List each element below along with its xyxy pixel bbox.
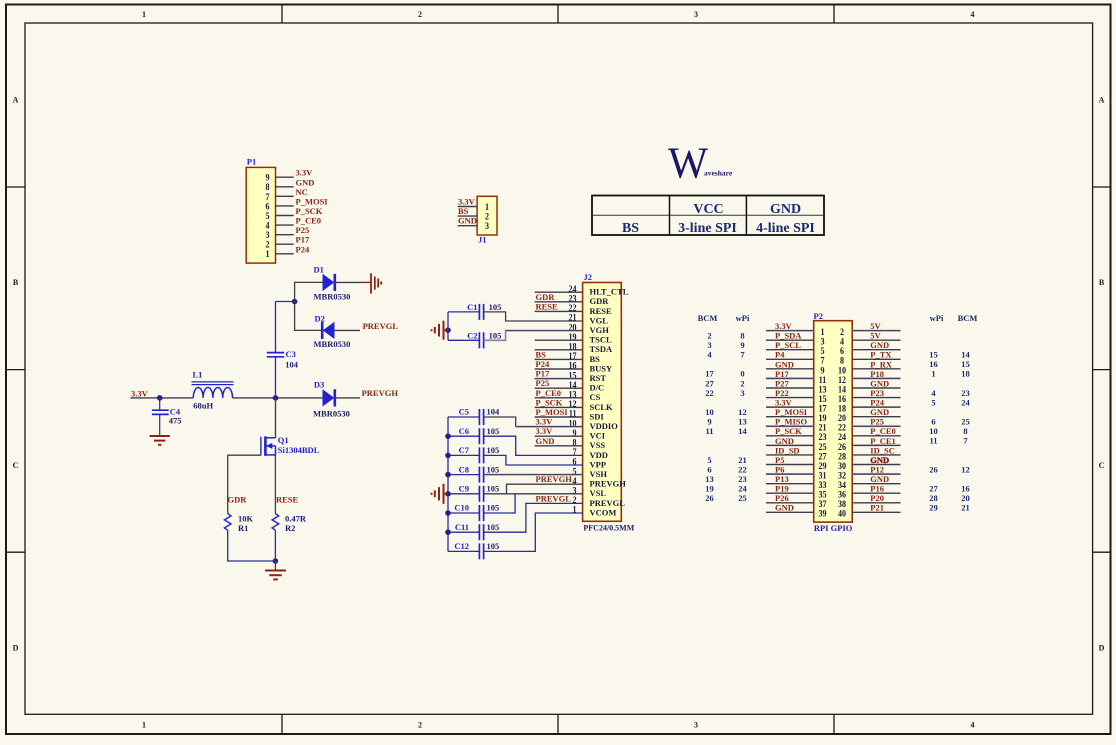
svg-text:12: 12 bbox=[738, 407, 747, 417]
svg-text:24: 24 bbox=[738, 484, 747, 494]
svg-text:3.3V: 3.3V bbox=[296, 168, 314, 178]
svg-text:P2: P2 bbox=[814, 311, 823, 321]
wire 3.3V rail bbox=[131, 397, 194, 399]
P2 row 7 right wire (pin 14) bbox=[852, 387, 900, 389]
svg-text:GND: GND bbox=[775, 359, 794, 369]
svg-text:ID_SD: ID_SD bbox=[775, 445, 800, 455]
svg-text:105: 105 bbox=[487, 464, 500, 474]
P1 pin 1 wire bbox=[276, 253, 294, 255]
svg-text:C2: C2 bbox=[467, 330, 477, 340]
svg-text:1: 1 bbox=[931, 369, 935, 379]
svg-text:MBR0530: MBR0530 bbox=[313, 409, 350, 419]
svg-text:W: W bbox=[668, 139, 708, 188]
wire drain vertical bbox=[275, 398, 277, 438]
P1 pin 3 wire bbox=[276, 234, 294, 236]
svg-text:39: 39 bbox=[818, 508, 827, 519]
svg-text:P_SDA: P_SDA bbox=[775, 331, 802, 341]
P2 row 19 left wire (pin 37) bbox=[766, 502, 814, 504]
svg-text:C1: C1 bbox=[467, 302, 477, 312]
node junction bus C7 bbox=[445, 453, 451, 459]
svg-text:P25: P25 bbox=[536, 378, 550, 388]
svg-text:BS: BS bbox=[536, 349, 547, 359]
svg-text:104: 104 bbox=[285, 359, 299, 369]
node junction bus C10 bbox=[445, 510, 451, 516]
svg-text:6: 6 bbox=[707, 464, 711, 474]
svg-text:aveshare: aveshare bbox=[704, 169, 733, 178]
svg-text:27: 27 bbox=[705, 378, 714, 388]
wire C7 to J2 pin 6 bbox=[484, 455, 583, 465]
capacitor C1 105 bbox=[448, 302, 501, 320]
J2 pin 23 wire bbox=[535, 301, 583, 303]
svg-text:D1: D1 bbox=[314, 265, 324, 275]
capacitor C11 105 bbox=[448, 522, 499, 540]
svg-text:GND: GND bbox=[775, 436, 794, 446]
svg-text:3: 3 bbox=[694, 10, 698, 19]
svg-text:20: 20 bbox=[961, 493, 970, 503]
svg-text:13: 13 bbox=[705, 474, 714, 484]
svg-text:B: B bbox=[1099, 278, 1105, 287]
P2 row 18 right wire (pin 36) bbox=[852, 492, 900, 494]
svg-text:RESE: RESE bbox=[590, 306, 613, 316]
wire J2 pin 4 PREVGH bbox=[507, 484, 583, 494]
svg-text:P25: P25 bbox=[296, 225, 310, 235]
wire C6 to J2 pin 7 bbox=[484, 436, 583, 455]
J2 pin 14 wire bbox=[535, 387, 583, 389]
svg-text:14: 14 bbox=[738, 426, 747, 436]
svg-text:P_SCK: P_SCK bbox=[775, 426, 802, 436]
wire C9 to J2 pin 3 bbox=[484, 493, 583, 495]
P1 pin 7 wire bbox=[276, 195, 294, 197]
svg-text:C12: C12 bbox=[454, 541, 469, 551]
svg-text:3.3V: 3.3V bbox=[536, 426, 554, 436]
svg-text:GDR: GDR bbox=[228, 495, 248, 505]
svg-text:GND: GND bbox=[870, 474, 889, 484]
svg-text:PREVGL: PREVGL bbox=[590, 498, 626, 508]
svg-text:16: 16 bbox=[961, 484, 970, 494]
svg-text:P4: P4 bbox=[775, 350, 785, 360]
node junction R1/R2 ground bbox=[273, 558, 279, 564]
svg-text:J2: J2 bbox=[584, 272, 593, 282]
resistor R2 0.47R bbox=[272, 514, 307, 534]
svg-text:P20: P20 bbox=[870, 493, 884, 503]
P2 row 13 right wire (pin 26) bbox=[852, 444, 900, 446]
svg-text:C8: C8 bbox=[459, 464, 469, 474]
svg-text:104: 104 bbox=[487, 407, 501, 417]
wire C3 vertical bottom bbox=[275, 357, 277, 398]
svg-text:TSCL: TSCL bbox=[590, 335, 613, 345]
node junction 3.3V/C4 bbox=[157, 395, 163, 401]
svg-text:19: 19 bbox=[705, 484, 714, 494]
P2 row 17 right wire (pin 34) bbox=[852, 483, 900, 485]
svg-text:25: 25 bbox=[738, 493, 747, 503]
wire C2 to J2 pin 20 bbox=[484, 331, 583, 341]
J2 pin 18 wire bbox=[535, 349, 583, 351]
P1 pin 2 wire bbox=[276, 243, 294, 245]
svg-text:2: 2 bbox=[740, 378, 744, 388]
svg-text:GND: GND bbox=[775, 503, 794, 513]
svg-text:P_RX: P_RX bbox=[870, 359, 893, 369]
svg-text:R2: R2 bbox=[285, 523, 295, 533]
svg-text:105: 105 bbox=[487, 445, 500, 455]
svg-text:P_MISO: P_MISO bbox=[775, 417, 808, 427]
svg-text:105: 105 bbox=[489, 302, 502, 312]
svg-text:VSL: VSL bbox=[590, 488, 607, 498]
svg-text:SDI: SDI bbox=[590, 411, 605, 421]
svg-text:3.3V: 3.3V bbox=[775, 398, 793, 408]
J2 pin 8 wire bbox=[535, 445, 583, 447]
wire J2 pin 3 to C10 bbox=[484, 494, 515, 513]
svg-text:P6: P6 bbox=[775, 464, 784, 474]
svg-text:A: A bbox=[13, 96, 19, 105]
svg-text:D: D bbox=[13, 644, 19, 653]
J2 pin 13 wire bbox=[535, 397, 583, 399]
capacitor C4 bbox=[152, 398, 182, 436]
svg-text:40: 40 bbox=[838, 508, 847, 519]
svg-text:CS: CS bbox=[590, 392, 601, 402]
svg-text:P24: P24 bbox=[536, 359, 550, 369]
P2 row 14 right wire (pin 28) bbox=[852, 454, 900, 456]
svg-text:P_MOSI: P_MOSI bbox=[296, 196, 329, 206]
svg-text:10K: 10K bbox=[238, 514, 254, 524]
J2 pin 11 wire bbox=[535, 416, 583, 418]
svg-text:25: 25 bbox=[961, 417, 970, 427]
transistor Q1 Si1304BDL bbox=[261, 435, 320, 456]
P2 row 20 left wire (pin 39) bbox=[766, 511, 814, 513]
svg-text:4: 4 bbox=[971, 721, 975, 730]
wire to D1/D2 bbox=[276, 301, 295, 303]
svg-text:P27: P27 bbox=[775, 378, 789, 388]
resistor R1 10K bbox=[224, 514, 253, 534]
P2 row 19 right wire (pin 38) bbox=[852, 502, 900, 504]
svg-text:0: 0 bbox=[740, 369, 744, 379]
J2 pin 9 wire bbox=[535, 435, 583, 437]
svg-text:VGH: VGH bbox=[590, 325, 610, 335]
P1 pin 5 wire bbox=[276, 215, 294, 217]
P2 row 6 left wire (pin 11) bbox=[766, 377, 814, 379]
node junction D1/D2 bbox=[292, 299, 298, 305]
svg-text:VSH: VSH bbox=[590, 469, 608, 479]
svg-text:2: 2 bbox=[707, 330, 711, 340]
J1 pin 3 wire bbox=[458, 225, 477, 227]
J1 pin 1 wire bbox=[458, 206, 477, 208]
svg-text:3.3V: 3.3V bbox=[458, 197, 476, 207]
svg-text:VCC: VCC bbox=[693, 202, 723, 217]
svg-text:28: 28 bbox=[929, 493, 938, 503]
wire capacitor bus bbox=[447, 417, 449, 551]
svg-text:10: 10 bbox=[705, 407, 714, 417]
svg-text:PREVGL: PREVGL bbox=[536, 493, 572, 503]
svg-text:1: 1 bbox=[142, 10, 146, 19]
P2 row 20 right wire (pin 40) bbox=[852, 511, 900, 513]
J2 pin 24 wire bbox=[535, 291, 583, 293]
svg-text:16: 16 bbox=[929, 359, 938, 369]
P2 row 17 left wire (pin 33) bbox=[766, 483, 814, 485]
svg-text:PREVGH: PREVGH bbox=[590, 479, 627, 489]
svg-text:GND: GND bbox=[870, 378, 889, 388]
svg-text:PREVGH: PREVGH bbox=[362, 388, 399, 398]
P2 row 10 left wire (pin 19) bbox=[766, 416, 814, 418]
node junction C1/C2 ground bbox=[445, 327, 451, 333]
P2 row 15 left wire (pin 29) bbox=[766, 464, 814, 466]
P2 row 11 right wire (pin 22) bbox=[852, 425, 900, 427]
svg-text:1: 1 bbox=[265, 249, 269, 260]
Waveshare logo bbox=[668, 139, 733, 188]
ground (C1/C2, left-pointing) bbox=[432, 321, 449, 340]
svg-text:21: 21 bbox=[961, 503, 970, 513]
svg-text:P_CE0: P_CE0 bbox=[536, 388, 562, 398]
P2 row 7 left wire (pin 13) bbox=[766, 387, 814, 389]
svg-text:C3: C3 bbox=[286, 349, 296, 359]
svg-text:18: 18 bbox=[961, 369, 970, 379]
svg-text:3.3V: 3.3V bbox=[775, 321, 793, 331]
svg-text:26: 26 bbox=[705, 493, 714, 503]
svg-text:C9: C9 bbox=[459, 484, 469, 494]
svg-text:P22: P22 bbox=[775, 388, 789, 398]
svg-text:L1: L1 bbox=[193, 370, 203, 380]
svg-text:68uH: 68uH bbox=[193, 400, 213, 410]
svg-text:23: 23 bbox=[961, 388, 970, 398]
wire C3 vertical top bbox=[275, 302, 277, 353]
svg-text:3-line SPI: 3-line SPI bbox=[678, 221, 737, 236]
svg-text:C6: C6 bbox=[459, 426, 469, 436]
svg-text:27: 27 bbox=[929, 484, 938, 494]
P2 row 16 left wire (pin 31) bbox=[766, 473, 814, 475]
P2 row 4 right wire (pin 8) bbox=[852, 358, 900, 360]
svg-text:105: 105 bbox=[487, 484, 500, 494]
svg-text:NC: NC bbox=[296, 187, 308, 197]
svg-text:8: 8 bbox=[963, 426, 967, 436]
svg-text:P_TX: P_TX bbox=[870, 350, 892, 360]
svg-text:BS: BS bbox=[458, 206, 469, 216]
P2 row 9 left wire (pin 17) bbox=[766, 406, 814, 408]
svg-text:D3: D3 bbox=[314, 380, 324, 390]
svg-text:P_MOSI: P_MOSI bbox=[536, 407, 569, 417]
svg-text:PREVGH: PREVGH bbox=[536, 474, 573, 484]
svg-text:15: 15 bbox=[961, 359, 970, 369]
svg-text:P_CE1: P_CE1 bbox=[870, 436, 896, 446]
P2 row 2 right wire (pin 4) bbox=[852, 339, 900, 341]
wire L1 to node bbox=[233, 397, 323, 399]
svg-text:9: 9 bbox=[740, 340, 744, 350]
P2 row 16 right wire (pin 32) bbox=[852, 473, 900, 475]
wire to D2 bbox=[295, 302, 323, 331]
svg-text:105: 105 bbox=[487, 426, 500, 436]
svg-text:P17: P17 bbox=[296, 235, 310, 245]
svg-text:SCLK: SCLK bbox=[590, 402, 614, 412]
capacitor C3 104 bbox=[267, 349, 299, 369]
svg-text:22: 22 bbox=[705, 388, 714, 398]
svg-text:P17: P17 bbox=[536, 369, 550, 379]
svg-text:0.47R: 0.47R bbox=[285, 514, 307, 524]
svg-text:12: 12 bbox=[961, 464, 970, 474]
P2 row 9 right wire (pin 18) bbox=[852, 406, 900, 408]
svg-text:3: 3 bbox=[485, 220, 490, 231]
diode D2 MBR0530 bbox=[314, 314, 351, 350]
svg-text:GND: GND bbox=[536, 436, 555, 446]
svg-text:11: 11 bbox=[929, 436, 937, 446]
node junction bus C9/ground bbox=[445, 491, 451, 497]
ground (C9, left-pointing) bbox=[432, 484, 449, 504]
svg-text:R1: R1 bbox=[238, 523, 248, 533]
capacitor C7 105 bbox=[448, 445, 499, 463]
diode D1 MBR0530 bbox=[314, 265, 351, 302]
wire D2 to PREVGL bbox=[335, 329, 361, 331]
svg-text:RST: RST bbox=[590, 373, 607, 383]
svg-text:A: A bbox=[1099, 96, 1105, 105]
wire C1 to J2 pin 21 bbox=[484, 312, 583, 321]
capacitor C6 105 bbox=[448, 426, 499, 444]
svg-text:VPP: VPP bbox=[590, 459, 607, 469]
BS mode table bbox=[592, 196, 824, 237]
svg-text:VCI: VCI bbox=[590, 431, 606, 441]
svg-text:P24: P24 bbox=[870, 398, 884, 408]
svg-text:P13: P13 bbox=[775, 474, 789, 484]
P2 row 3 right wire (pin 6) bbox=[852, 349, 900, 351]
wire J2 pin 2 PREVGL to C11 bbox=[484, 503, 583, 532]
svg-text:P_SCL: P_SCL bbox=[775, 340, 801, 350]
svg-text:21: 21 bbox=[738, 455, 747, 465]
svg-text:PFC24/0.5MM: PFC24/0.5MM bbox=[583, 523, 634, 532]
svg-text:3.3V: 3.3V bbox=[536, 417, 554, 427]
svg-text:26: 26 bbox=[929, 464, 938, 474]
svg-text:RESE: RESE bbox=[276, 495, 299, 505]
svg-text:MBR0530: MBR0530 bbox=[314, 291, 351, 301]
wire C8 to J2 pin 5 bbox=[484, 474, 583, 476]
svg-text:P_MOSI: P_MOSI bbox=[775, 407, 808, 417]
svg-text:3.3V: 3.3V bbox=[131, 388, 149, 398]
svg-text:15: 15 bbox=[929, 350, 938, 360]
svg-text:BCM: BCM bbox=[958, 313, 978, 323]
svg-text:GDR: GDR bbox=[536, 292, 556, 302]
svg-text:BUSY: BUSY bbox=[590, 363, 613, 373]
wire J2 pin 1 VCOM to C12 bbox=[484, 513, 583, 551]
P2 row 12 right wire (pin 24) bbox=[852, 435, 900, 437]
ground (C4) bbox=[150, 436, 170, 445]
svg-text:P_CE0: P_CE0 bbox=[296, 216, 322, 226]
capacitor C12 105 bbox=[448, 541, 499, 559]
svg-text:PREVGL: PREVGL bbox=[363, 321, 399, 331]
svg-text:C7: C7 bbox=[459, 445, 470, 455]
wire D1 to ground bbox=[335, 281, 362, 283]
P2 row 3 left wire (pin 5) bbox=[766, 349, 814, 351]
svg-text:4: 4 bbox=[971, 10, 975, 19]
svg-text:8: 8 bbox=[740, 330, 744, 340]
svg-text:6: 6 bbox=[931, 417, 935, 427]
svg-text:1: 1 bbox=[142, 721, 146, 730]
P1 pin 8 wire bbox=[276, 186, 294, 188]
capacitor C5 104 bbox=[448, 407, 500, 425]
svg-text:475: 475 bbox=[169, 416, 182, 426]
P1 pin 6 wire bbox=[276, 205, 294, 207]
P1 pin 4 wire bbox=[276, 224, 294, 226]
wire C5 to J2 pin 10 bbox=[484, 417, 516, 427]
svg-text:2: 2 bbox=[418, 721, 422, 730]
svg-text:GND: GND bbox=[296, 177, 315, 187]
node junction bus C8 bbox=[445, 472, 451, 478]
J2 pin 12 wire bbox=[535, 406, 583, 408]
svg-text:22: 22 bbox=[738, 464, 747, 474]
svg-text:5V: 5V bbox=[870, 331, 881, 341]
svg-text:P1: P1 bbox=[247, 157, 256, 167]
capacitor C10 105 bbox=[448, 503, 499, 521]
node junction bus C11 bbox=[445, 529, 451, 535]
J1 pin 2 wire bbox=[458, 215, 477, 217]
svg-text:wPi: wPi bbox=[930, 313, 944, 323]
ground (D1, right-pointing) bbox=[362, 273, 382, 293]
svg-text:105: 105 bbox=[487, 522, 500, 532]
svg-text:TSDA: TSDA bbox=[590, 344, 614, 354]
svg-text:3: 3 bbox=[740, 388, 744, 398]
svg-text:5: 5 bbox=[931, 397, 935, 407]
wire C1/C2 bus bbox=[447, 312, 449, 340]
svg-text:P5: P5 bbox=[775, 455, 784, 465]
wire R2 bottom bbox=[274, 530, 276, 561]
J2 pin 19 wire bbox=[535, 339, 583, 341]
svg-text:5: 5 bbox=[707, 455, 711, 465]
svg-text:GND: GND bbox=[458, 216, 477, 226]
J2 pin 22 wire bbox=[535, 310, 583, 312]
svg-text:P19: P19 bbox=[775, 484, 789, 494]
svg-text:11: 11 bbox=[705, 426, 713, 436]
connector P2 RPI GPIO bbox=[814, 311, 853, 533]
svg-text:10: 10 bbox=[929, 426, 938, 436]
svg-text:VDD: VDD bbox=[590, 450, 608, 460]
svg-text:VDDIO: VDDIO bbox=[590, 421, 619, 431]
svg-text:GND: GND bbox=[870, 340, 889, 350]
svg-text:MBR0530: MBR0530 bbox=[314, 339, 351, 349]
svg-text:C5: C5 bbox=[459, 407, 469, 417]
svg-text:9: 9 bbox=[707, 417, 711, 427]
svg-text:BS: BS bbox=[590, 354, 601, 364]
connector J1 bbox=[477, 196, 497, 244]
svg-text:GND: GND bbox=[770, 202, 801, 217]
svg-text:17: 17 bbox=[705, 369, 714, 379]
svg-text:P18: P18 bbox=[870, 369, 884, 379]
svg-text:C: C bbox=[1099, 461, 1105, 470]
connector J2 PFC24/0.5MM bbox=[583, 272, 635, 532]
svg-text:VSS: VSS bbox=[590, 440, 606, 450]
svg-text:3: 3 bbox=[707, 340, 711, 350]
capacitor C8 105 bbox=[448, 464, 499, 482]
diode D3 MBR0530 bbox=[313, 380, 350, 419]
svg-text:J1: J1 bbox=[478, 235, 487, 245]
P2 row 2 left wire (pin 3) bbox=[766, 339, 814, 341]
svg-text:ID_SC: ID_SC bbox=[870, 445, 895, 455]
P2 row 10 right wire (pin 20) bbox=[852, 416, 900, 418]
capacitor C2 105 bbox=[448, 330, 501, 348]
svg-text:C10: C10 bbox=[454, 503, 469, 513]
wire to D1 bbox=[295, 282, 323, 301]
capacitor C9 105 bbox=[448, 484, 499, 502]
svg-text:P_SCK: P_SCK bbox=[296, 206, 323, 216]
svg-text:Q1: Q1 bbox=[278, 435, 289, 445]
node junction bus C6 bbox=[445, 433, 451, 439]
svg-text:C: C bbox=[13, 461, 19, 470]
J2 pin 16 wire bbox=[535, 368, 583, 370]
svg-text:C11: C11 bbox=[455, 522, 469, 532]
svg-text:24: 24 bbox=[961, 397, 970, 407]
P2 row 18 left wire (pin 35) bbox=[766, 492, 814, 494]
svg-text:P24: P24 bbox=[296, 244, 310, 254]
svg-text:P26: P26 bbox=[775, 493, 789, 503]
svg-text:P16: P16 bbox=[870, 484, 884, 494]
J2 pin 15 wire bbox=[535, 378, 583, 380]
svg-text:P_CE0: P_CE0 bbox=[870, 426, 896, 436]
svg-text:BS: BS bbox=[622, 221, 639, 236]
svg-text:D/C: D/C bbox=[590, 383, 605, 393]
svg-text:VCOM: VCOM bbox=[590, 507, 617, 517]
svg-text:RPI GPIO: RPI GPIO bbox=[814, 523, 853, 533]
